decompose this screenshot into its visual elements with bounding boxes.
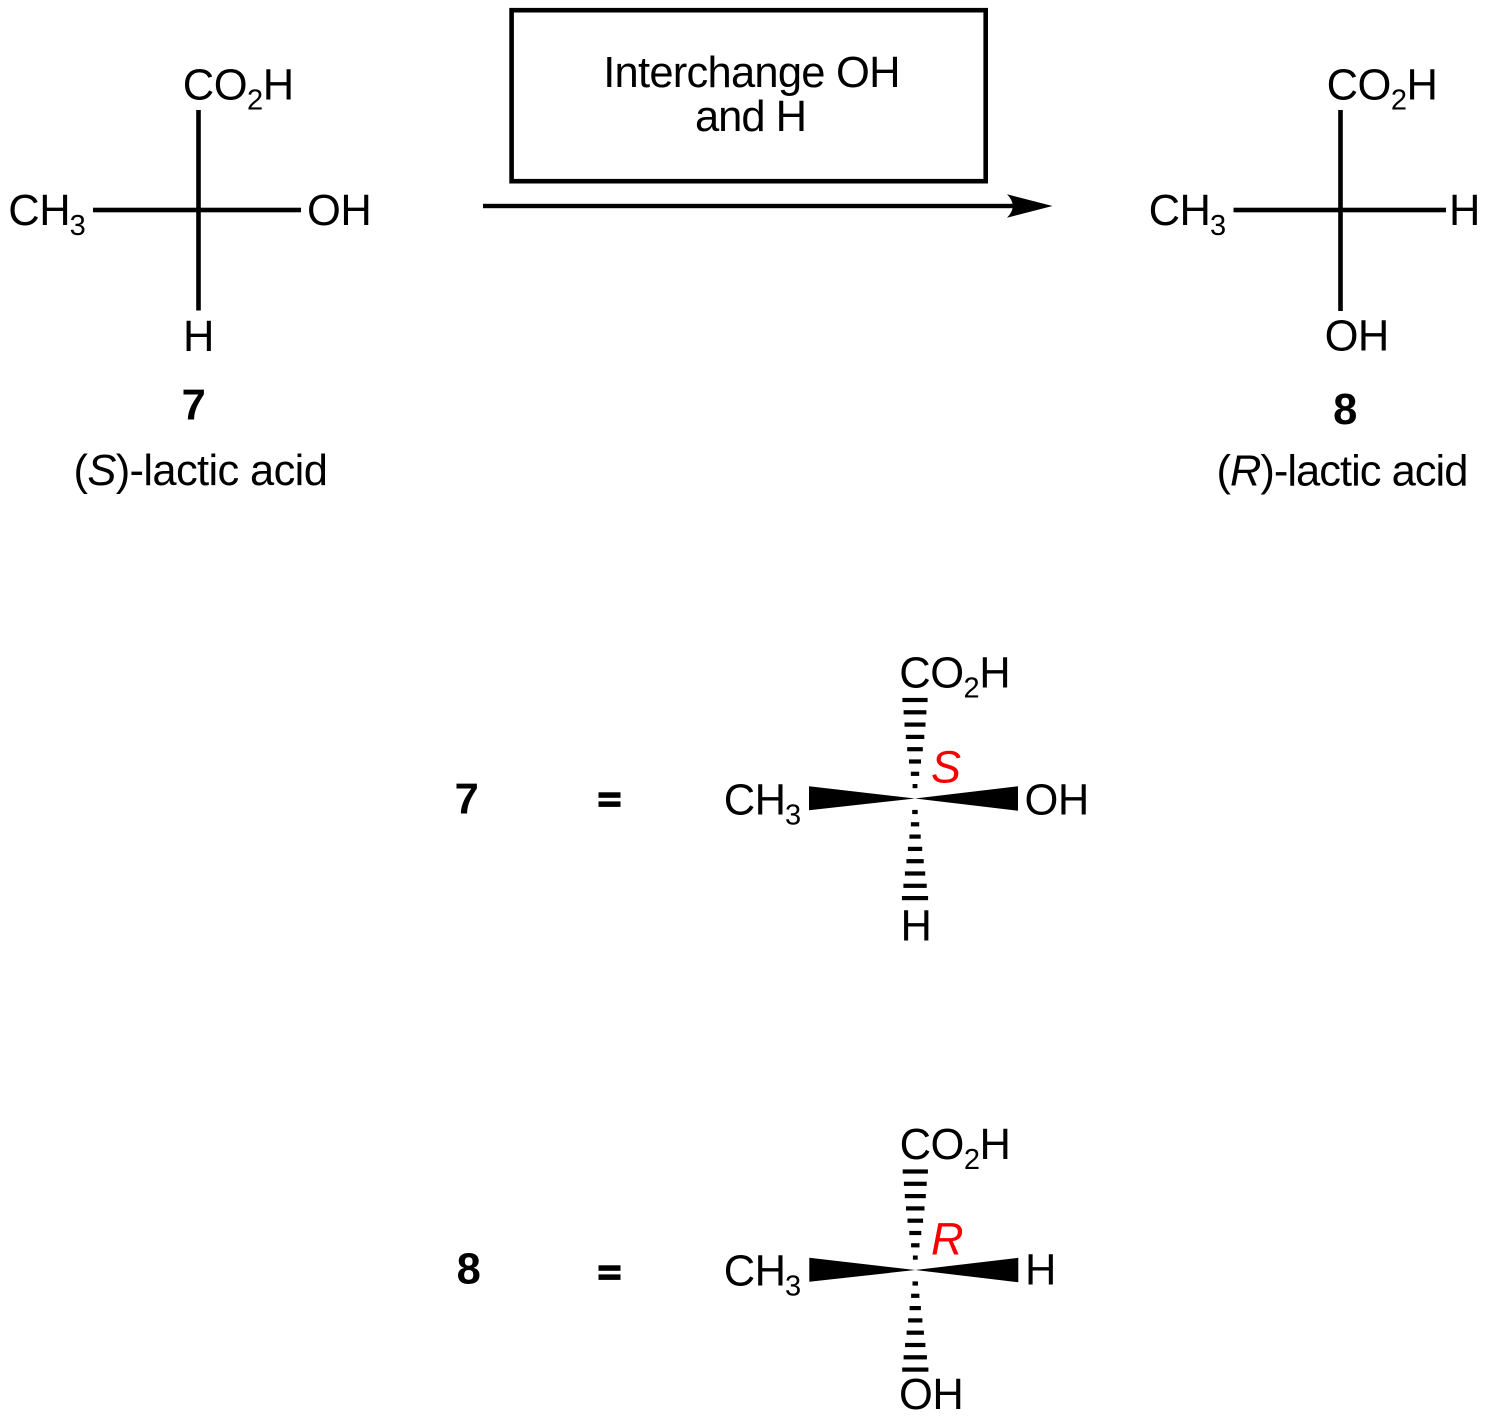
equals sign (row 8) bbox=[599, 1265, 621, 1271]
horizontal bond CH3-C-OH (structure 7 cross) bbox=[93, 208, 301, 213]
hashed wedge bond down (structure 7) bbox=[902, 810, 928, 900]
svg-text:CO2H: CO2H bbox=[183, 62, 294, 117]
svg-text:S: S bbox=[931, 742, 961, 793]
svg-text:H: H bbox=[1449, 187, 1480, 235]
svg-text:OH: OH bbox=[307, 187, 371, 235]
hashed wedge bond down (structure 8) bbox=[902, 1281, 928, 1371]
svg-text:8: 8 bbox=[1333, 386, 1357, 434]
svg-text:Interchange OH: Interchange OH bbox=[603, 49, 900, 97]
svg-text:and H: and H bbox=[695, 93, 806, 141]
svg-text:8: 8 bbox=[457, 1246, 481, 1294]
bold wedge bond to CH3 (structure 7) bbox=[809, 786, 915, 810]
svg-text:H: H bbox=[183, 313, 214, 361]
svg-text:(R)-lactic acid: (R)-lactic acid bbox=[1217, 448, 1468, 496]
svg-text:OH: OH bbox=[1025, 777, 1089, 825]
svg-text:7: 7 bbox=[182, 382, 206, 430]
svg-text:R: R bbox=[931, 1213, 963, 1264]
svg-text:CO2H: CO2H bbox=[900, 1121, 1011, 1176]
reaction arrow bbox=[483, 204, 1013, 208]
svg-text:7: 7 bbox=[455, 776, 479, 824]
hashed wedge bond up to CO2H (structure 7) bbox=[902, 698, 927, 788]
bold wedge bond to right substituent (structure 8) bbox=[915, 1258, 1018, 1283]
vertical bond CO2H-C-H (structure 7 cross) bbox=[196, 110, 201, 311]
svg-text:OH: OH bbox=[1325, 313, 1389, 361]
svg-text:H: H bbox=[1025, 1247, 1056, 1295]
svg-text:CO2H: CO2H bbox=[899, 650, 1010, 705]
reaction condition box bbox=[512, 10, 986, 181]
svg-text:(S)-lactic acid: (S)-lactic acid bbox=[74, 447, 328, 495]
horizontal bond CH3-C-H (structure 8 cross) bbox=[1234, 208, 1447, 213]
hashed wedge bond up to CO2H (structure 8) bbox=[903, 1169, 928, 1259]
vertical bond CO2H-C-OH (structure 8 cross) bbox=[1338, 110, 1343, 311]
equals sign (row 7) bbox=[599, 792, 621, 798]
svg-text:H: H bbox=[901, 902, 932, 950]
svg-text:OH: OH bbox=[899, 1371, 963, 1419]
reaction arrowhead bbox=[1007, 194, 1053, 217]
svg-text:CO2H: CO2H bbox=[1327, 62, 1438, 117]
bold wedge bond to right substituent (structure 7) bbox=[915, 786, 1018, 811]
bold wedge bond to CH3 (structure 8) bbox=[809, 1258, 915, 1282]
